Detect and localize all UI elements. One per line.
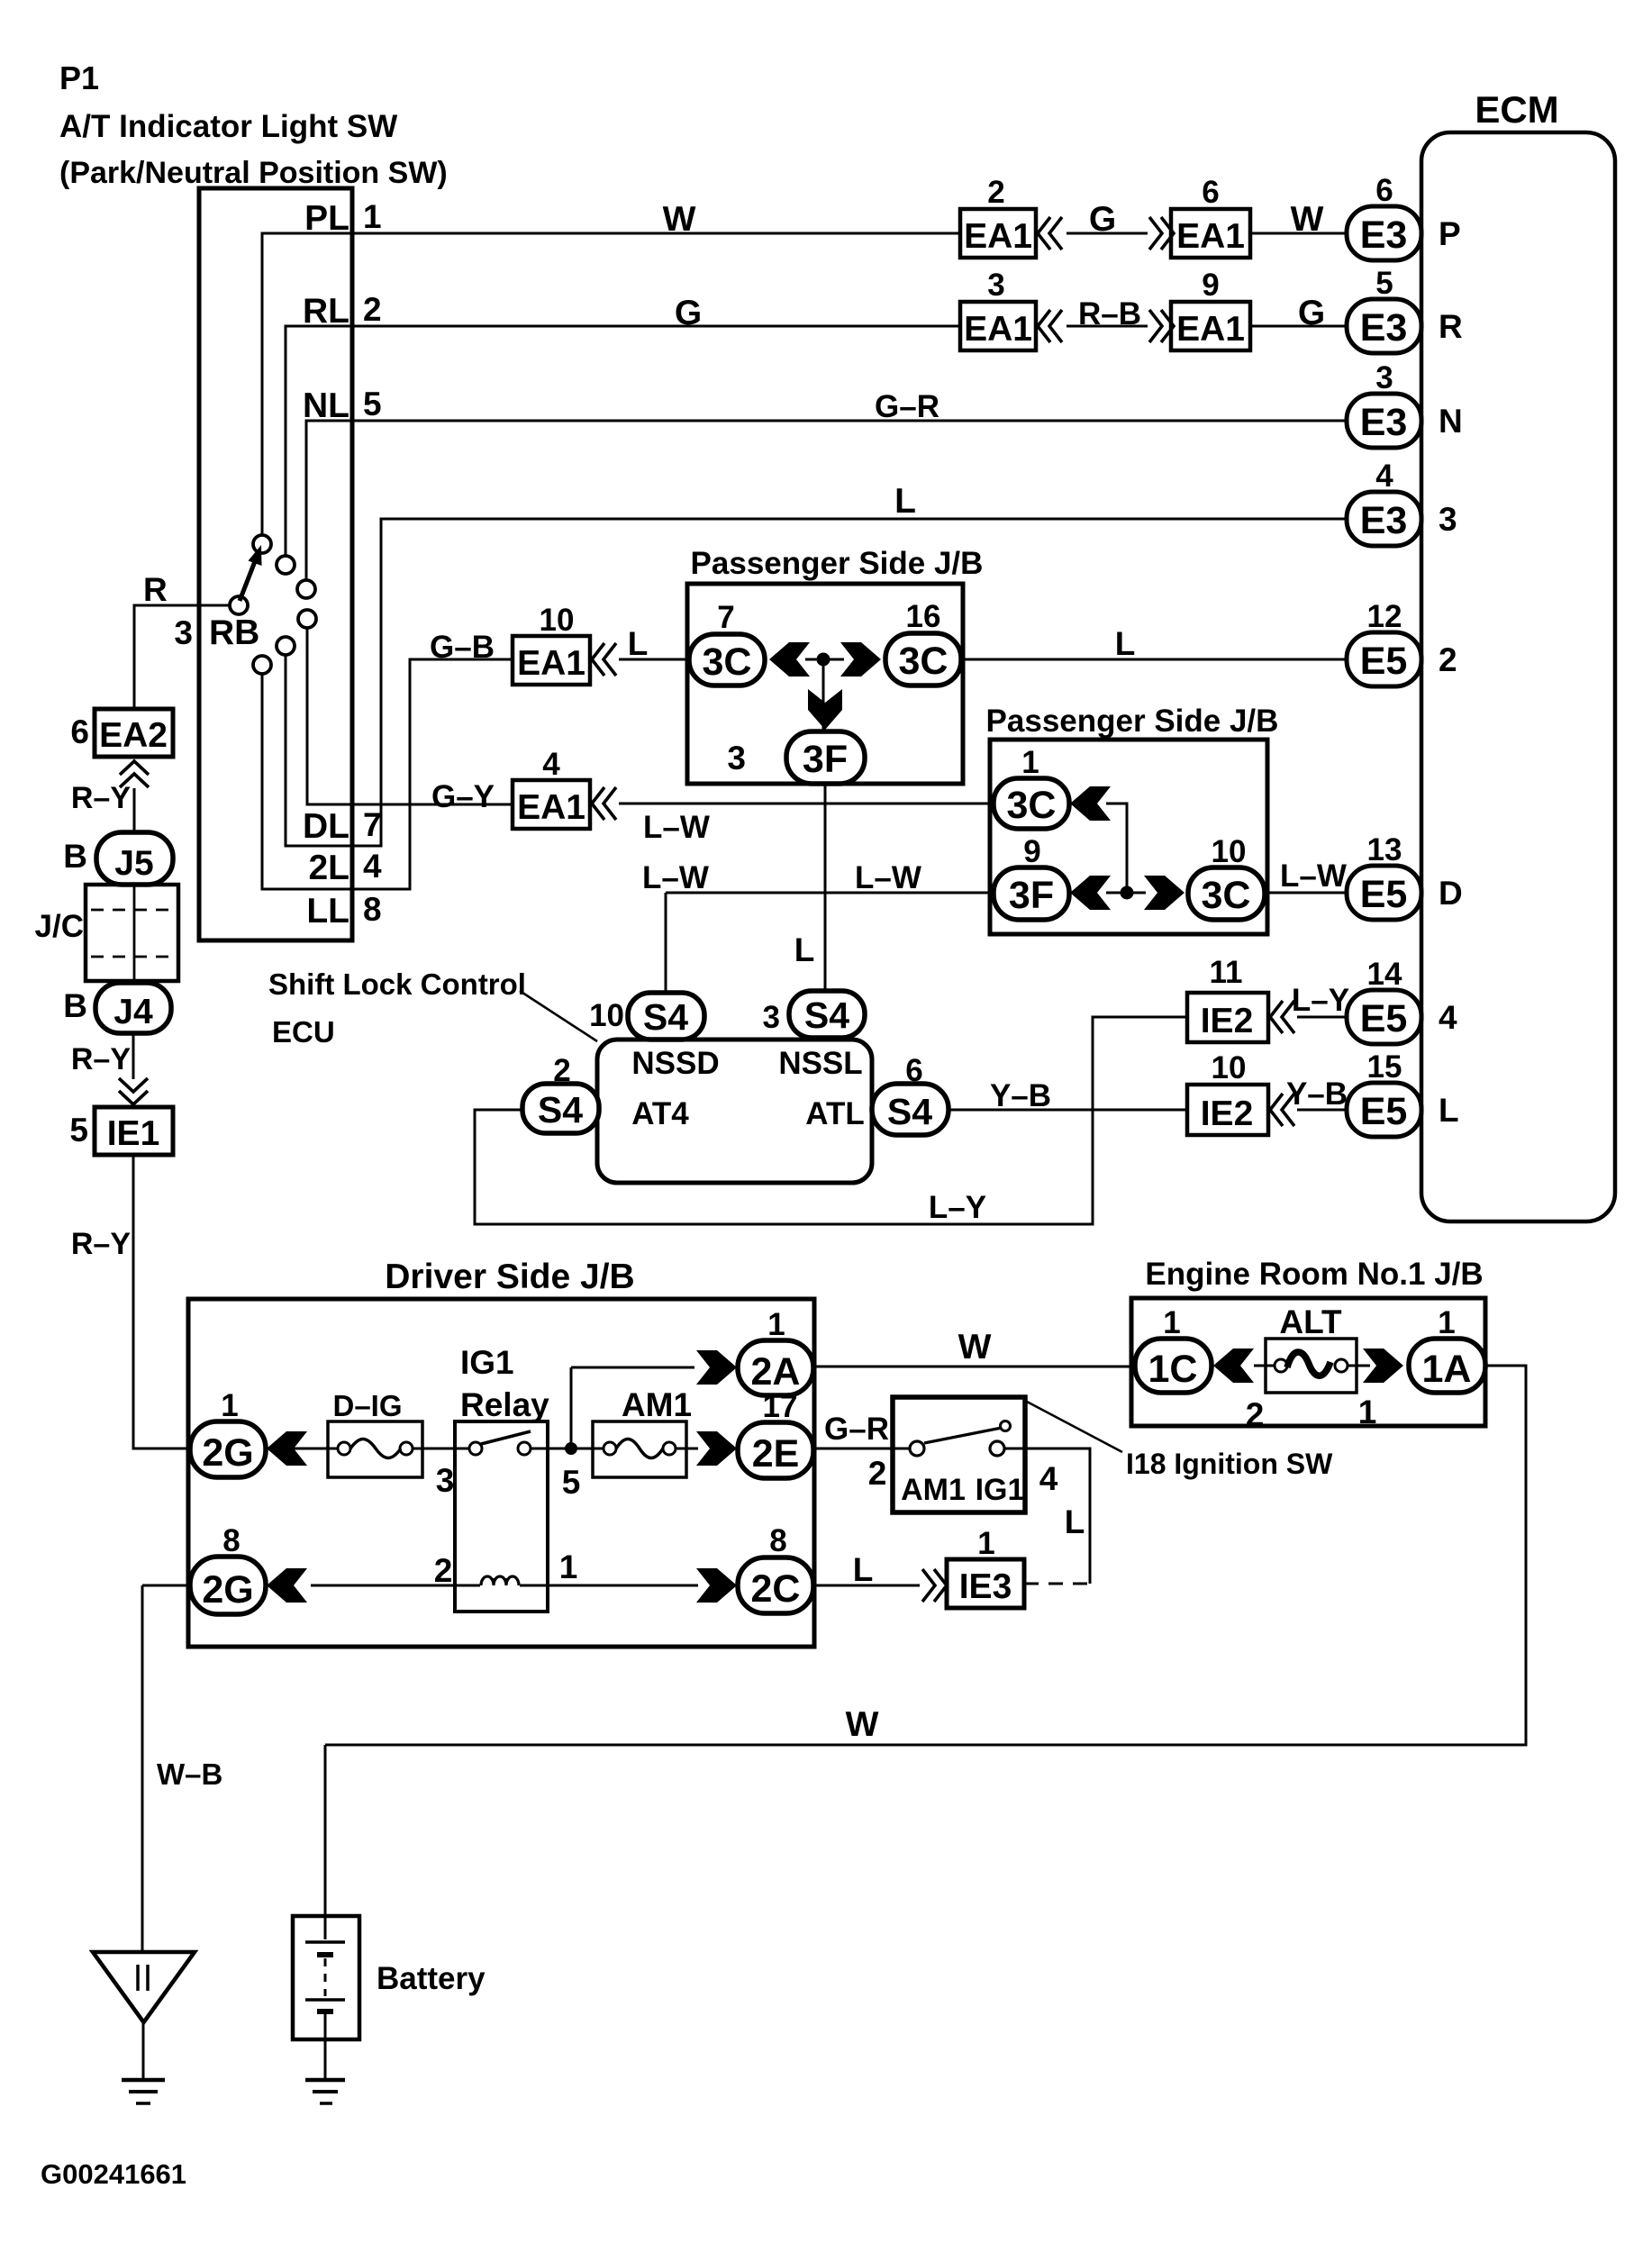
svg-text:ATL: ATL [805,1096,864,1131]
svg-text:EA1: EA1 [517,644,585,683]
svg-text:LL: LL [306,892,349,931]
svg-text:G: G [1089,200,1116,239]
svg-text:RB: RB [209,613,259,652]
svg-text:W: W [958,1328,992,1367]
svg-text:3: 3 [1439,501,1457,538]
svg-text:1: 1 [767,1307,785,1342]
svg-text:Relay: Relay [460,1386,549,1423]
svg-text:L: L [1115,625,1136,662]
svg-text:A/T Indicator Light SW: A/T Indicator Light SW [59,109,397,144]
svg-text:IG1: IG1 [976,1473,1025,1507]
svg-text:2: 2 [987,175,1004,210]
svg-text:S4: S4 [804,994,849,1036]
svg-text:4: 4 [1039,1460,1058,1497]
svg-text:ECM: ECM [1475,88,1558,131]
svg-text:E5: E5 [1360,640,1408,683]
svg-text:R–Y: R–Y [71,1042,131,1076]
svg-text:L: L [894,482,916,521]
svg-text:L: L [794,931,815,968]
svg-text:S4: S4 [887,1091,932,1132]
svg-text:4: 4 [542,747,560,782]
svg-text:12: 12 [1367,599,1402,634]
svg-text:3: 3 [763,1000,780,1035]
svg-text:15: 15 [1367,1049,1402,1085]
svg-text:3C: 3C [899,640,949,683]
svg-text:L–W: L–W [1280,858,1347,894]
svg-text:2A: 2A [751,1350,801,1394]
svg-text:5: 5 [69,1112,88,1149]
svg-text:4: 4 [1439,999,1457,1036]
svg-text:1: 1 [1358,1394,1377,1430]
svg-text:4: 4 [1375,459,1393,494]
svg-text:8: 8 [222,1523,240,1558]
svg-text:AM1: AM1 [901,1473,966,1507]
svg-text:J4: J4 [113,993,153,1031]
svg-text:IE3: IE3 [959,1567,1012,1606]
svg-text:AM1: AM1 [622,1386,692,1423]
svg-text:R: R [1439,308,1463,345]
svg-text:5: 5 [562,1464,581,1501]
svg-text:13: 13 [1367,832,1402,867]
svg-text:2: 2 [1246,1396,1265,1433]
svg-text:E5: E5 [1360,1090,1408,1133]
svg-text:Battery: Battery [377,1961,486,1996]
svg-text:EA1: EA1 [1176,310,1245,349]
svg-text:6: 6 [905,1053,922,1088]
svg-text:10: 10 [1212,1050,1247,1085]
svg-text:L–W: L–W [643,810,710,845]
svg-text:1: 1 [221,1388,238,1423]
svg-text:L–W: L–W [642,860,709,895]
svg-text:P: P [1439,215,1461,252]
svg-text:E5: E5 [1360,873,1408,916]
svg-text:9: 9 [1023,834,1040,869]
svg-text:L–W: L–W [855,860,921,895]
svg-text:IE2: IE2 [1201,1002,1254,1040]
svg-text:14: 14 [1367,957,1402,992]
svg-text:J5: J5 [114,844,153,883]
svg-text:L–Y: L–Y [929,1190,986,1225]
svg-text:G–B: G–B [430,630,495,665]
svg-text:10: 10 [540,603,575,638]
svg-text:3C: 3C [1007,784,1057,827]
svg-text:G: G [675,294,702,332]
svg-text:EA1: EA1 [964,217,1032,256]
svg-text:G–Y: G–Y [431,779,495,814]
svg-text:N: N [1439,403,1463,440]
svg-text:3C: 3C [1202,874,1251,917]
svg-text:EA2: EA2 [99,716,168,755]
svg-text:5: 5 [1375,266,1393,301]
svg-text:6: 6 [70,713,89,750]
svg-text:D: D [1439,875,1463,912]
svg-text:1: 1 [1438,1305,1455,1340]
svg-text:4: 4 [363,848,382,885]
svg-text:1C: 1C [1148,1348,1198,1391]
svg-text:1: 1 [363,198,382,235]
svg-text:L: L [1065,1503,1085,1540]
svg-text:G: G [1298,294,1325,332]
svg-text:3: 3 [436,1462,455,1499]
svg-text:EA1: EA1 [964,310,1032,349]
svg-text:Driver Side J/B: Driver Side J/B [385,1258,634,1296]
svg-text:5: 5 [363,386,382,422]
svg-text:2G: 2G [202,1568,253,1612]
svg-text:W–B: W–B [157,1757,222,1791]
svg-text:B: B [63,838,87,875]
svg-text:E5: E5 [1360,997,1408,1040]
svg-text:G–R: G–R [824,1412,889,1447]
svg-text:Y–B: Y–B [1286,1076,1348,1112]
svg-text:1: 1 [977,1526,994,1561]
svg-text:DL: DL [303,807,349,846]
svg-text:R–B: R–B [1078,296,1141,331]
svg-text:3C: 3C [703,640,752,684]
svg-text:Passenger Side J/B: Passenger Side J/B [986,704,1279,739]
svg-text:2: 2 [553,1053,570,1088]
svg-text:Engine Room No.1 J/B: Engine Room No.1 J/B [1145,1257,1483,1292]
svg-text:1: 1 [559,1548,578,1585]
svg-text:E3: E3 [1360,401,1408,444]
svg-text:Y–B: Y–B [990,1078,1051,1113]
svg-text:6: 6 [1375,173,1393,208]
svg-text:EA1: EA1 [517,788,585,827]
svg-text:1: 1 [1163,1305,1180,1340]
svg-text:2: 2 [868,1455,887,1492]
svg-text:16: 16 [906,599,941,634]
svg-text:E3: E3 [1360,499,1408,542]
svg-text:L–Y: L–Y [1292,983,1349,1018]
svg-text:17: 17 [763,1389,798,1424]
svg-text:1A: 1A [1422,1348,1472,1391]
svg-text:L: L [1439,1092,1459,1129]
svg-text:2G: 2G [202,1431,253,1475]
svg-text:ECU: ECU [272,1015,335,1049]
svg-text:2E: 2E [752,1432,800,1476]
svg-text:2: 2 [363,291,382,328]
svg-text:W: W [663,200,696,239]
svg-text:11: 11 [1210,955,1243,990]
svg-text:G00241661: G00241661 [41,2158,186,2190]
svg-text:G–R: G–R [875,389,939,424]
svg-text:AT4: AT4 [631,1096,689,1131]
svg-text:8: 8 [769,1523,786,1558]
svg-text:EA1: EA1 [1176,217,1245,256]
svg-text:3: 3 [987,268,1004,303]
svg-text:B: B [63,987,87,1024]
svg-text:3F: 3F [1009,874,1054,917]
svg-text:IE2: IE2 [1201,1094,1254,1133]
svg-text:IG1: IG1 [460,1344,514,1381]
svg-text:3: 3 [1375,360,1393,395]
svg-text:Passenger Side J/B: Passenger Side J/B [691,546,984,581]
svg-text:D–IG: D–IG [332,1389,402,1422]
svg-text:9: 9 [1202,268,1219,303]
svg-text:(Park/Neutral Position SW): (Park/Neutral Position SW) [59,156,448,190]
svg-text:8: 8 [363,891,382,928]
svg-text:3: 3 [174,614,193,651]
svg-text:7: 7 [363,806,382,843]
svg-text:NSSD: NSSD [631,1046,719,1081]
svg-text:1: 1 [1021,745,1039,780]
svg-text:S4: S4 [538,1089,583,1131]
svg-text:2: 2 [434,1552,453,1589]
svg-text:L: L [853,1551,874,1588]
svg-text:10: 10 [589,998,624,1033]
svg-text:IE1: IE1 [107,1114,160,1153]
svg-text:E3: E3 [1360,306,1408,350]
svg-text:Shift Lock Control: Shift Lock Control [268,967,526,1001]
svg-text:S4: S4 [643,996,688,1038]
svg-text:3F: 3F [803,738,848,781]
svg-text:6: 6 [1202,175,1219,210]
svg-text:R: R [143,571,168,608]
svg-text:J/C: J/C [35,909,84,944]
svg-text:3: 3 [727,740,746,776]
svg-text:7: 7 [717,600,734,635]
svg-text:10: 10 [1212,834,1247,869]
svg-text:NSSL: NSSL [778,1046,862,1081]
svg-text:W: W [846,1705,879,1744]
svg-text:2: 2 [1439,641,1457,678]
svg-text:L: L [628,625,649,662]
svg-text:ALT: ALT [1279,1303,1342,1340]
svg-text:R–Y: R–Y [71,1227,131,1261]
svg-text:I18 Ignition SW: I18 Ignition SW [1126,1448,1333,1480]
svg-text:2L: 2L [308,849,349,887]
svg-text:P1: P1 [59,59,99,96]
svg-text:W: W [1291,200,1324,239]
svg-text:2C: 2C [751,1567,801,1611]
svg-text:R–Y: R–Y [71,781,131,815]
svg-text:E3: E3 [1360,213,1408,257]
